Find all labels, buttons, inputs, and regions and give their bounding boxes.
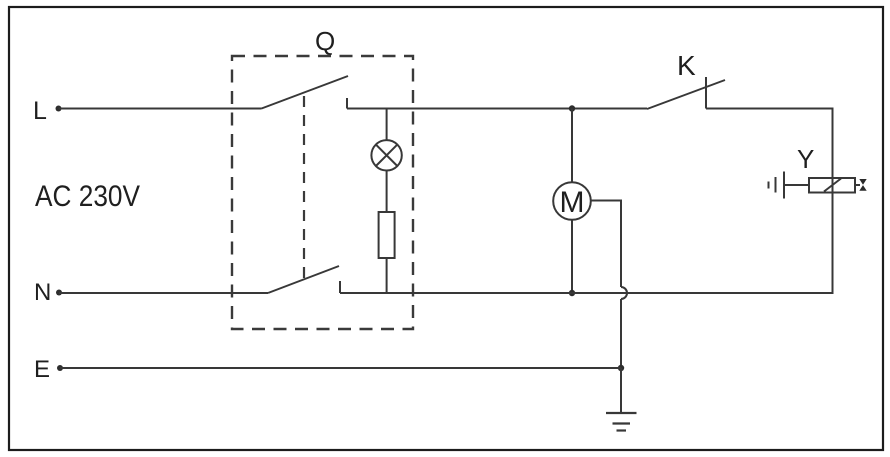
motor M	[553, 182, 591, 220]
wire L input	[59, 108, 262, 110]
switch Q pole 1 contact	[346, 98, 348, 109]
svg-text:L: L	[33, 97, 47, 125]
actuator reference symbol Y	[769, 172, 785, 199]
valve restrictor symbol	[859, 179, 866, 191]
wire motor bottom	[571, 220, 573, 293]
enclosure Q (dashed box)	[232, 56, 413, 329]
ground	[606, 413, 637, 431]
wire L bus	[347, 108, 647, 110]
terminal dot N	[56, 290, 62, 296]
svg-text:M: M	[560, 186, 585, 219]
junction node A (L bus / motor)	[569, 105, 575, 111]
wire K to right rail	[706, 108, 833, 110]
terminal dot E	[57, 365, 63, 371]
wire crossover hop over N	[621, 287, 627, 299]
wire N input	[59, 292, 268, 294]
switch K contact	[705, 77, 707, 109]
svg-text:AC 230V: AC 230V	[35, 180, 140, 213]
svg-text:N: N	[34, 279, 51, 306]
wire resistor to N	[386, 258, 388, 293]
wire lamp to resistor	[386, 171, 388, 213]
wire Y stub left	[784, 184, 809, 186]
switch Q pole 2 blade	[268, 266, 339, 293]
switch K blade	[647, 80, 725, 109]
junction E / ground wire	[618, 365, 624, 371]
wire E	[60, 367, 621, 369]
lamp H1	[371, 140, 401, 170]
resistor R1	[379, 212, 395, 258]
linkage Q (dashed)	[303, 96, 305, 278]
switch Q pole 1 blade	[262, 76, 349, 109]
svg-text:Q: Q	[315, 26, 335, 56]
switch Q pole 2 contact	[339, 281, 341, 293]
wire E junction to ground	[620, 368, 622, 413]
wire motor top	[571, 109, 573, 183]
solenoid valve Y body	[809, 178, 855, 193]
wire lamp branch top	[386, 109, 388, 141]
wire N bus	[340, 292, 834, 294]
wire Y stub right	[855, 184, 860, 186]
svg-text:K: K	[677, 50, 696, 81]
svg-text:Y: Y	[797, 144, 814, 174]
wire motor right	[591, 201, 621, 288]
junction motor / N bus	[569, 290, 575, 296]
svg-text:E: E	[34, 356, 50, 383]
wire hop to E junction	[620, 299, 622, 368]
wire right rail down	[832, 108, 834, 295]
terminal dot L	[56, 106, 62, 112]
